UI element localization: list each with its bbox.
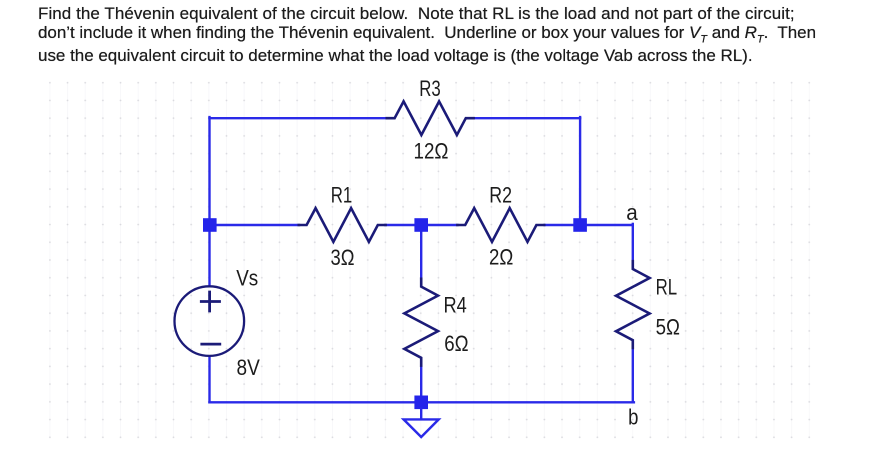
value 12Ω xyxy=(414,138,449,163)
label R3 xyxy=(419,76,441,101)
resistor R4 xyxy=(404,279,438,366)
voltage source Vs circle xyxy=(175,286,245,356)
svg-text:b: b xyxy=(628,405,638,430)
label Vs xyxy=(236,266,258,291)
svg-text:12Ω: 12Ω xyxy=(414,138,449,163)
svg-text:3Ω: 3Ω xyxy=(331,245,355,270)
svg-text:R1: R1 xyxy=(331,182,353,207)
label R1 xyxy=(331,182,353,207)
wire middle horizontal: center node to R2 xyxy=(421,224,457,226)
svg-text:8V: 8V xyxy=(237,355,261,380)
problem statement line 2 xyxy=(38,23,816,45)
wire middle horizontal: R2 to right node xyxy=(545,224,580,226)
wire bottom horizontal xyxy=(210,401,634,403)
junction center node xyxy=(414,218,428,232)
wire right node to corner a xyxy=(580,224,633,226)
svg-text:6Ω: 6Ω xyxy=(444,331,468,356)
resistor R3 xyxy=(387,101,474,135)
node b xyxy=(628,405,638,430)
resistor RL xyxy=(616,261,650,348)
svg-text:R3: R3 xyxy=(419,76,441,101)
label R2 xyxy=(489,182,512,207)
resistor R1 xyxy=(299,208,386,242)
wire center node down to R4 xyxy=(420,225,422,279)
junction right node xyxy=(573,218,587,232)
wire left vertical lower xyxy=(208,356,210,402)
svg-text:R4: R4 xyxy=(444,292,467,317)
value 6Ω xyxy=(444,331,468,356)
label R4 xyxy=(444,292,467,317)
problem statement line 3 xyxy=(38,46,753,66)
wire middle horizontal: left node to R1 xyxy=(210,224,299,226)
problem statement line 1 xyxy=(38,4,795,24)
wire right vertical (R3 to middle node) xyxy=(579,117,581,220)
svg-text:5Ω: 5Ω xyxy=(656,314,680,339)
svg-text:R2: R2 xyxy=(489,182,512,207)
wire R4 to bottom node xyxy=(420,365,422,402)
wire node a down to RL xyxy=(632,224,634,261)
value 8V xyxy=(237,355,261,380)
wire top-right horizontal xyxy=(474,117,580,119)
voltage source plus sign xyxy=(201,292,219,311)
wire middle horizontal: R1 to center node xyxy=(385,224,421,226)
voltage source minus sign xyxy=(202,343,220,346)
wire top-left horizontal xyxy=(210,117,387,119)
ground xyxy=(404,409,439,437)
value 2Ω xyxy=(489,245,513,270)
junction left node xyxy=(203,218,217,232)
value 3Ω xyxy=(331,245,355,270)
svg-text:RL: RL xyxy=(656,275,678,300)
node a xyxy=(626,200,638,225)
svg-text:Vs: Vs xyxy=(236,266,258,291)
resistor R2 xyxy=(457,208,544,242)
svg-text:2Ω: 2Ω xyxy=(489,245,513,270)
value 5Ω xyxy=(656,314,680,339)
wire RL to corner b xyxy=(632,348,634,403)
svg-text:a: a xyxy=(626,200,638,225)
junction bottom node xyxy=(414,396,428,410)
label RL xyxy=(656,275,678,300)
wire left vertical upper xyxy=(208,117,210,286)
